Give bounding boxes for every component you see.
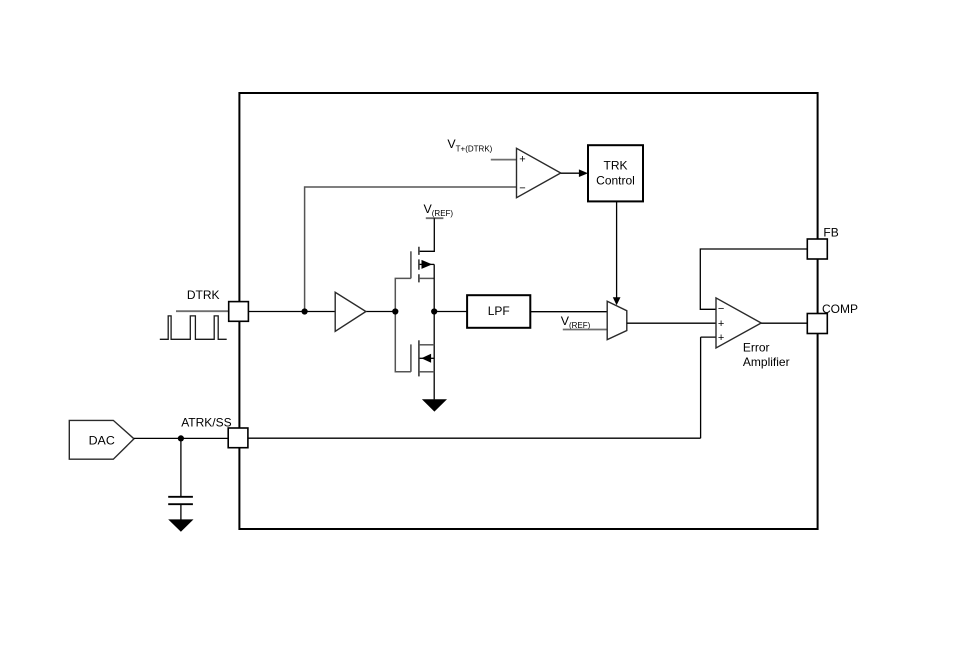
svg-text:LPF: LPF (488, 304, 510, 318)
wire ATRK/SS pin to error amp (248, 437, 701, 439)
block LPF box (467, 295, 530, 328)
pin FB square (807, 239, 827, 259)
op-amp error amplifier triangle (716, 298, 761, 348)
svg-text:DAC: DAC (89, 433, 115, 447)
svg-text:Amplifier: Amplifier (743, 355, 790, 369)
wire V(REF) to drain (419, 218, 434, 251)
node capacitor tap junction dot (178, 435, 184, 441)
wire comparator plus lead (491, 159, 517, 161)
svg-text:+: + (519, 153, 525, 165)
transistor Q1 channel dashes (418, 247, 420, 283)
wire gate left rail (395, 278, 411, 371)
svg-text:+: + (718, 318, 724, 330)
node FET output junction dot (431, 308, 437, 314)
pin DTRK square (229, 302, 249, 322)
wire DAC to ATRK/SS pin (134, 437, 228, 439)
ground symbol under capacitor (168, 519, 193, 531)
transistor Q2 drain lead (419, 344, 434, 346)
wire V(REF) stub (426, 217, 444, 219)
wire FET node to LPF (434, 311, 467, 313)
svg-text:Control: Control (596, 173, 635, 187)
transistor Q1 body lead with arrow (420, 263, 435, 265)
block TRK Control box (588, 145, 643, 201)
wire DTRK lead (176, 310, 229, 312)
transistor Q2 body lead with arrow (420, 357, 435, 359)
mux selector trapezoid (607, 301, 627, 339)
node junction dot on DTRK line (302, 308, 308, 314)
wire FET right rail (433, 264, 435, 399)
wire DTRK pin to buffer (248, 311, 335, 313)
svg-text:COMP: COMP (822, 302, 858, 316)
wire TRK Control to mux select (616, 201, 618, 297)
svg-text:−: − (718, 303, 724, 315)
transistor Q2 channel bar (418, 340, 420, 376)
arrowhead mux select (613, 297, 621, 305)
wire ATRK to error amp plus loop (701, 337, 717, 438)
wire comparator minus loop (305, 187, 517, 312)
waveform pulse train (160, 316, 227, 339)
transistor Q2 gate bar (410, 344, 412, 371)
svg-text:TRK: TRK (604, 158, 628, 172)
transistor Q2 source lead (419, 371, 434, 373)
arrowhead into TRK Control (579, 169, 588, 177)
svg-text:Error: Error (743, 341, 770, 355)
wire V(REF) mux input stub (563, 329, 607, 331)
comparator U1 triangle (517, 148, 561, 197)
node gate junction dot (392, 308, 398, 314)
wire error amp output to COMP (761, 322, 807, 324)
pin COMP square (807, 314, 827, 334)
capacitor C1 top lead (180, 438, 182, 496)
capacitor C1 plates (168, 496, 193, 498)
svg-text:DTRK: DTRK (187, 288, 220, 302)
svg-text:FB: FB (823, 225, 838, 239)
svg-text:ATRK/SS: ATRK/SS (181, 416, 231, 430)
transistor Q1 gate bar (410, 251, 412, 278)
wire FB feedback loop (700, 249, 807, 309)
pin ATRK/SS square (228, 428, 248, 448)
ground symbol under FET (422, 399, 447, 411)
transistor Q1 source lead (419, 277, 434, 279)
svg-text:+: + (718, 332, 724, 344)
wire mux output to error amplifier (627, 322, 716, 324)
capacitor C1 bottom lead (180, 504, 182, 519)
wire LPF to mux (530, 311, 607, 313)
buffer amplifier triangle (335, 292, 366, 331)
svg-text:−: − (519, 182, 525, 194)
wire comparator output (561, 172, 580, 174)
IC boundary rectangle (239, 93, 817, 529)
wire buffer output to gate node (366, 311, 395, 313)
DAC block pentagon (69, 420, 134, 459)
